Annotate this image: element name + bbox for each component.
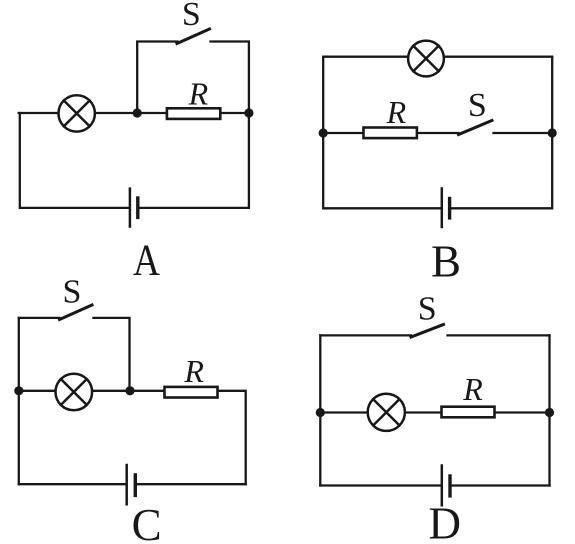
svg-text:R: R: [462, 371, 483, 407]
svg-text:R: R: [183, 353, 204, 389]
svg-text:R: R: [188, 76, 209, 112]
svg-text:A: A: [133, 236, 160, 285]
svg-text:D: D: [429, 499, 462, 544]
svg-text:S: S: [182, 0, 201, 33]
svg-text:S: S: [63, 273, 82, 310]
svg-text:C: C: [132, 499, 162, 544]
svg-text:R: R: [386, 94, 407, 130]
svg-text:B: B: [431, 236, 461, 286]
svg-text:S: S: [418, 290, 437, 327]
svg-text:S: S: [468, 87, 487, 124]
